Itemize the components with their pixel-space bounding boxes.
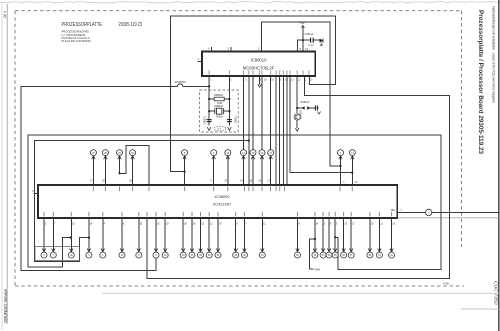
- node Q left: [208, 110, 210, 112]
- left page edge line: [1, 2, 3, 330]
- svg-text:29305-119.23: 29305-119.23: [119, 22, 143, 28]
- wire pins 1 and 14 drops: [340, 166, 342, 185]
- connector pin 42 bottom row: [241, 218, 247, 258]
- connector pin 62 bottom row: [389, 218, 396, 258]
- pin stub 5 on IC98010 top: [230, 47, 232, 52]
- svg-text:PLACA DE CONTADOR: PLACA DE CONTADOR: [62, 39, 91, 43]
- +5V arrow: [301, 25, 304, 28]
- connector pin 29 top row: [117, 150, 123, 174]
- svg-text:+5V: +5V: [299, 21, 306, 25]
- svg-text:D98010: D98010: [301, 101, 310, 104]
- svg-text:C98010: C98010: [204, 115, 207, 124]
- crystal left leg wire: [208, 76, 210, 126]
- connector pin 30 bottom row: [68, 218, 75, 258]
- connector pin 8 bottom row: [136, 218, 143, 258]
- wire left vertical bus V1: [21, 86, 156, 270]
- svg-text:4+05: 4+05: [443, 282, 449, 286]
- crystal Q98010: [217, 108, 222, 114]
- subtitle translations: [62, 30, 91, 44]
- node connector 5 feed: [184, 171, 186, 173]
- connector pin 54 bottom row: [326, 218, 332, 258]
- connector pin 40 bottom row: [233, 218, 239, 258]
- jumper arc on bus H1: [178, 84, 183, 87]
- connector pin 30 bottom row: [180, 218, 187, 258]
- connector output circle right: [426, 209, 432, 215]
- svg-text:C98013: C98013: [305, 33, 314, 36]
- wire connector row feed from loop: [171, 172, 185, 185]
- wire pin8 drop: [297, 40, 299, 51]
- fold line horizontal top (dashed): [15, 10, 462, 12]
- torn paper top edge: [0, 2, 500, 3]
- svg-text:26 4: 26 4: [3, 11, 7, 18]
- svg-text:ZC411967: ZC411967: [213, 202, 232, 207]
- wire reset net horizontal: [297, 107, 302, 109]
- pin 1 stub on IC98010 left: [198, 61, 203, 63]
- node R98010 right: [228, 98, 230, 100]
- fold line horizontal bottom (dashed): [15, 285, 464, 287]
- node circle3 jog: [118, 172, 120, 174]
- wire circle3 jog: [120, 145, 150, 185]
- wire circle row bus right: [290, 76, 352, 173]
- node osc feed: [208, 85, 210, 87]
- svg-text:R98010: R98010: [214, 93, 224, 97]
- svg-text:GRUNDIG Service: GRUNDIG Service: [3, 288, 8, 323]
- connector pin 50 bottom row: [295, 218, 301, 258]
- faint scan line right of IC98000: [397, 217, 499, 219]
- svg-text:IC98010: IC98010: [251, 58, 268, 63]
- wire bottom outer loop W4: [147, 76, 450, 279]
- capacitor C98010: [207, 119, 212, 121]
- wire below transistor: [296, 121, 298, 128]
- connector pin 61 bottom row: [376, 218, 383, 258]
- node bottom right dot1: [314, 238, 316, 240]
- wire bus H1 continuation: [183, 85, 209, 87]
- node bottom right dot2: [334, 236, 336, 238]
- connector pin 7 bottom row: [50, 218, 56, 258]
- ground arrow reset: [295, 128, 299, 131]
- connector pin 36 bottom row: [206, 218, 213, 258]
- wire bus loop W3 left leg: [34, 141, 248, 262]
- faint line right margin low: [461, 308, 499, 310]
- wire IC98000 output right: [397, 211, 425, 213]
- connector pin 15 top row: [250, 76, 256, 185]
- connector pin 55 bottom row: [332, 218, 338, 258]
- connector pin 9 bottom row: [153, 218, 160, 258]
- diode D98010 pair: [302, 106, 305, 110]
- node bottom dot1: [70, 236, 72, 238]
- wire cap branch: [298, 39, 311, 41]
- ground arrow right: [228, 127, 232, 130]
- left margin rule: [6, 4, 8, 324]
- pin stub left on IC98000: [34, 193, 39, 195]
- connector pin 56 bottom row: [341, 218, 348, 258]
- diode D98011: [320, 39, 323, 43]
- wire inner top loop pin2 to right side: [262, 22, 341, 166]
- node +5V cap: [302, 39, 304, 41]
- ground arrow below IC98010: [258, 84, 262, 87]
- node R98010 left: [208, 98, 210, 100]
- wire reset right segment: [310, 107, 316, 109]
- svg-text:IC98020: IC98020: [300, 109, 303, 119]
- wire reset net vertical: [296, 76, 298, 113]
- svg-text:C98011: C98011: [235, 115, 238, 124]
- svg-text:Plattenabbildungen und Schaltp: Plattenabbildungen und Schaltpläne · Lay…: [492, 6, 496, 103]
- wire outer top loop from node A down to connector row: [171, 16, 336, 172]
- connector pin 60 bottom row: [367, 218, 374, 258]
- connector housing box: [35, 247, 80, 261]
- connector pin 27 top row: [90, 150, 96, 185]
- crystal right leg wire: [228, 76, 230, 126]
- svg-text:Q98010: Q98010: [214, 104, 224, 108]
- connector pin 1 top row: [338, 150, 344, 166]
- node bottom dot2: [88, 236, 90, 238]
- node W3 junction: [248, 140, 250, 142]
- connector pin 28 top row: [102, 150, 108, 185]
- connector pin 18 top row: [267, 76, 273, 185]
- svg-text:0,1µ: 0,1µ: [309, 44, 314, 47]
- node reset: [296, 107, 298, 109]
- svg-text:PROZESSORPLATTE: PROZESSORPLATTE: [62, 22, 103, 28]
- connector pin 4 bottom row: [41, 218, 47, 258]
- processor IC98000: [38, 185, 397, 218]
- connector pin 52 bottom row: [312, 218, 319, 258]
- svg-text:28A: 28A: [391, 209, 396, 212]
- transistor T98010 circle: [294, 114, 300, 120]
- fold line vertical left (dashed): [14, 11, 16, 287]
- faint scan line bottom: [102, 292, 499, 294]
- connector pin 10 top row: [224, 150, 230, 185]
- connector pin 17 top row: [259, 76, 265, 185]
- svg-text:CUC 7350: CUC 7350: [493, 281, 499, 305]
- wire bus loop W2 left leg: [28, 135, 441, 269]
- connector pin 10 bottom row: [162, 218, 169, 258]
- connector pin 38 bottom row: [215, 218, 222, 258]
- wire output to edge: [432, 211, 499, 213]
- ground stub below IC98010 pin: [259, 76, 261, 84]
- wire vertical through W3 junction: [248, 76, 250, 185]
- connector pin 14 top row: [240, 76, 246, 185]
- connector pin 30 top row: [129, 150, 135, 185]
- node Q right: [228, 110, 230, 112]
- resistor R98010: [214, 97, 224, 101]
- connector pin 33 bottom row: [189, 218, 196, 258]
- connector pin 10 bottom row: [119, 218, 125, 258]
- wire down from dot1: [314, 236, 316, 249]
- right scan edge: [498, 0, 500, 331]
- connector pin 8 top row: [182, 150, 188, 172]
- wire +5V feed: [302, 28, 304, 52]
- node pin14 drop: [351, 172, 353, 174]
- oscillator dashed enclosure: [200, 90, 239, 132]
- connector pin 35 bottom row: [198, 218, 205, 258]
- wire bus H1 to oscillator: [21, 85, 178, 87]
- svg-text:Prozessorplatte / Processor Bo: Prozessorplatte / Processor Board 29305-…: [477, 10, 484, 154]
- wire net stub with label: [310, 239, 315, 269]
- ground arrow left: [207, 127, 211, 130]
- connector pin 53 bottom row: [320, 218, 326, 258]
- fold line vertical right (dashed): [461, 11, 463, 247]
- microcontroller IC98010: [202, 52, 315, 76]
- capacitor at reset right: [314, 106, 316, 111]
- svg-text:4MHz: 4MHz: [216, 115, 223, 119]
- connector pin 44 bottom row: [259, 218, 266, 258]
- connector pin 57 bottom row: [348, 218, 355, 258]
- connector pin 14 top row: [349, 150, 355, 173]
- svg-text:MC68HC705L2F: MC68HC705L2F: [243, 66, 275, 71]
- pin stub 4 on IC98010 top: [211, 47, 213, 52]
- connector pin 1 bottom row: [100, 218, 106, 258]
- svg-text:IC98000: IC98000: [214, 194, 230, 199]
- svg-text:4N41: 4N41: [315, 268, 322, 271]
- dashed oval marker: [214, 126, 226, 131]
- node pin1 drop: [339, 165, 341, 167]
- capacitor C98013: [310, 38, 312, 43]
- connector pin 5 bottom row: [86, 218, 93, 258]
- capacitor C98011: [227, 119, 232, 121]
- wire top IC pin drops to IC98000: [275, 76, 277, 185]
- connector pin 9 top row: [210, 150, 216, 185]
